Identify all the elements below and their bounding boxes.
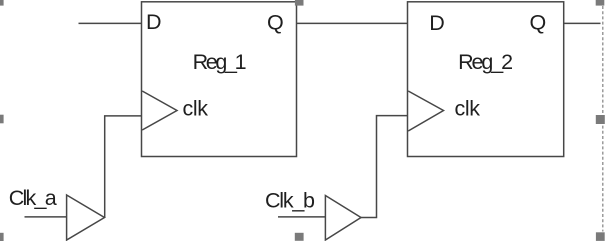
svg-text:Reg_2: Reg_2 — [458, 50, 513, 74]
selection handle bottom-left — [0, 233, 4, 241]
wire Clk_b stub — [278, 216, 325, 218]
clock buffer Clk_a — [67, 195, 105, 240]
svg-text:Clk_b: Clk_b — [265, 189, 315, 213]
svg-text:D: D — [146, 10, 162, 34]
selection handle middle-left — [0, 115, 4, 124]
svg-text:Q: Q — [530, 11, 547, 35]
wire Clk_a stub — [25, 216, 67, 218]
selection handle bottom-center — [295, 233, 304, 241]
selection handle middle-right — [596, 115, 605, 124]
wire Q1 to D2 — [297, 22, 408, 24]
selection handle top-right — [596, 0, 605, 6]
svg-text:D: D — [429, 11, 445, 35]
selection handle top-left — [0, 0, 4, 6]
svg-text:Q: Q — [267, 11, 284, 35]
selection handle top-center — [295, 0, 304, 6]
selection border (dashed, right side) — [602, 6, 604, 232]
svg-text:clk: clk — [183, 97, 209, 121]
svg-text:clk: clk — [455, 97, 481, 121]
wire Clk_b buffer to Reg_2 clk — [361, 116, 408, 218]
wire Clk_a buffer to Reg_1 clk — [105, 116, 142, 218]
register Reg_1 body — [142, 2, 297, 157]
svg-text:Reg_1: Reg_1 — [193, 50, 247, 74]
clock input triangle (Reg_1) — [142, 91, 177, 130]
register Reg_2 body — [408, 2, 564, 157]
svg-text:Clk_a: Clk_a — [9, 186, 57, 210]
clock buffer Clk_b — [325, 196, 361, 241]
clock input triangle (Reg_2) — [408, 91, 443, 131]
wire Q output of Reg_2 — [564, 22, 601, 24]
wire D input of Reg_1 — [79, 22, 142, 24]
selection handle bottom-right — [596, 232, 605, 241]
